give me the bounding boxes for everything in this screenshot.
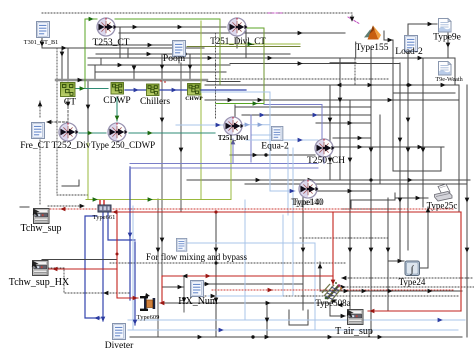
wire [85,19,264,104]
notepad Fre_CT [20,123,50,152]
svg-text:Type661: Type661 [93,214,116,221]
pump Type 250_CDWP [91,123,155,151]
wire magenta dashed link to Type155 [268,13,360,24]
svg-text:T251_Divl_CT: T251_Divl_CT [210,36,266,46]
svg-text:CHWP: CHWP [185,96,203,102]
wire [85,90,246,325]
delay Type661 [93,200,116,221]
svg-text:Poom: Poom [163,54,186,64]
svg-text:Chillers: Chillers [140,97,170,107]
wire arrowheads green [80,17,258,202]
notepad Poom [163,41,186,65]
svg-text:T252_Div: T252_Div [51,141,90,151]
svg-text:T air_sup: T air_sup [335,326,373,337]
controller Tchw_sup [21,209,62,235]
diverter T251_Divl_CT [210,18,266,47]
macro CT [61,83,77,108]
svg-text:HX_Num: HX_Num [178,296,218,307]
integrator Type24 [399,261,426,287]
wire [42,212,461,311]
datafile T9e-Weath [435,62,463,84]
svg-text:Type9e: Type9e [433,33,461,43]
notepad Load-2 [395,36,423,58]
svg-text:T253_CT: T253_CT [93,38,130,48]
wire arrowheads red [52,207,374,314]
wire [130,105,324,169]
pump T250_CH [307,139,345,167]
svg-text:CT: CT [64,98,76,108]
svg-text:Equa-2: Equa-2 [261,142,289,152]
svg-text:T9e-Weath: T9e-Weath [435,76,463,83]
svg-text:Type25c: Type25c [427,201,458,211]
svg-text:Fre_CT: Fre_CT [20,141,50,151]
svg-text:Type140: Type140 [291,197,323,207]
macro Chillers [140,84,170,107]
wire [76,89,215,134]
pump Type140 [291,180,324,208]
printer T301_CT_B1 [24,22,58,47]
svg-text:Tchw_sup_HX: Tchw_sup_HX [9,277,70,288]
notepad Equa-2 [261,126,289,151]
valve Type609 [137,293,160,321]
svg-text:T301_CT_B1: T301_CT_B1 [24,39,58,46]
wire [128,92,465,330]
notepad For flow [146,238,247,262]
wire gray bus [56,79,207,81]
svg-text:Type 250_CDWP: Type 250_CDWP [91,140,155,150]
matlab Type155 [355,26,388,54]
svg-text:Type609: Type609 [137,314,160,321]
svg-text:For flow mixing and bypass: For flow mixing and bypass [146,252,247,262]
datafile Type9e [433,19,461,43]
controller T air_sup [335,310,373,338]
printer Type25c [427,184,458,211]
svg-text:Type24: Type24 [399,277,426,287]
pump T253_CT [93,18,130,49]
diverter T251_Divl [218,117,248,143]
svg-text:Type155: Type155 [355,43,388,53]
wire arrowheads blue [94,88,443,333]
svg-text:CDWP: CDWP [103,96,130,106]
svg-text:T251_Divl: T251_Divl [218,135,248,142]
macro CDWP [103,83,130,107]
red tick marks near Chillers [160,81,166,82]
wire [86,21,300,200]
wire [50,209,455,290]
svg-text:Tchw_sup: Tchw_sup [21,223,62,234]
svg-text:T250_CH: T250_CH [307,156,345,166]
notepad Diveter [105,324,134,352]
svg-text:Diveter: Diveter [105,341,134,351]
svg-text:Load-2: Load-2 [395,47,423,57]
pump T252_Div [51,123,90,152]
notepad HX_Num [178,281,218,308]
coil Type508a [315,282,350,308]
svg-text:Type508a: Type508a [315,298,350,308]
macro CHWP [185,84,203,103]
controller Tchw_sup_HX [9,261,70,289]
